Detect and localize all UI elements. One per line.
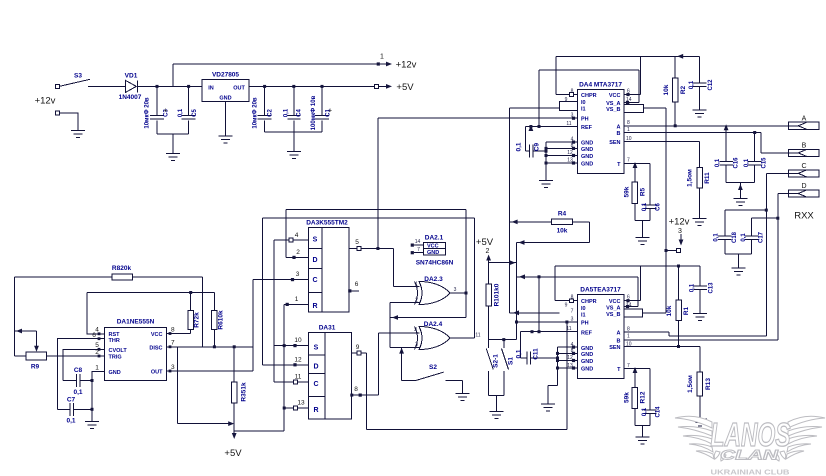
capacitor C6 [642,202,662,211]
junction dot out5 [376,247,379,250]
junction dot C9 at bus [545,150,548,153]
connector B [789,143,820,157]
wire +12v terminal [666,250,677,252]
svg-text:0,1: 0,1 [178,108,184,117]
DA5 VCC stub [624,299,641,302]
DA4 I0/I1 input box [560,101,578,110]
wire DA5 PH row [517,321,578,323]
capacitor C7 [70,403,74,416]
XOR gate DA2.4 [414,321,481,350]
label +12v output [396,60,417,71]
svg-text:59k: 59k [624,392,631,403]
555 pin squares left [98,332,101,357]
svg-text:0,1: 0,1 [73,389,82,396]
svg-text:GND: GND [581,367,593,373]
plus mark C3 [163,108,167,115]
wire VD1 to regulator [138,85,202,87]
wire C15 connections [754,133,756,183]
svg-text:CHPR: CHPR [581,93,597,99]
svg-text:A: A [802,116,807,123]
wire S2 to ground [461,381,463,394]
svg-text:C13: C13 [709,282,715,294]
wire C18 connections [725,210,766,254]
wire C7 row [57,408,92,410]
svg-text:R2: R2 [680,85,687,94]
junction dot riser at pin13 [283,407,286,410]
ground symbol 555 [85,418,99,429]
svg-text:R351k: R351k [241,382,248,402]
svg-text:59k: 59k [624,186,631,197]
ground symbol DA5 [541,400,555,411]
capacitor C1 [311,95,332,130]
pin number 11 [295,374,302,381]
wire THR loop [57,339,104,410]
svg-text:11: 11 [475,333,480,339]
svg-text:9: 9 [565,303,568,309]
svg-text:GND: GND [581,141,593,147]
svg-text:R101k0: R101k0 [494,283,501,306]
DA4 PH pin square [572,117,575,120]
svg-text:VD27805: VD27805 [212,72,239,79]
ground symbol C16-C15 [733,195,747,206]
capacitor C3 [145,97,170,129]
junction dot DA5 PH [565,321,568,324]
svg-text:SEN: SEN [609,345,620,351]
wire DA4 VCC loop [556,56,700,94]
wire pin4-pin11 riser [273,240,275,382]
wire out5 to DA4 PH riser [377,118,379,248]
arrow junction DA5 I0 feed [513,310,519,315]
arrow +5V rail [379,84,393,89]
wire DA5 VS_B to rail [643,312,666,314]
wire DA3.1 pin13 R [284,407,308,409]
wire DA5 A row [624,332,767,336]
svg-text:DA2.3: DA2.3 [424,276,443,283]
wire C6 drop [649,163,651,205]
svg-text:C12: C12 [708,79,714,91]
resistor R11 [687,168,712,189]
wire DA4 CHPR riser [555,56,557,94]
wire C13 connections [699,266,701,314]
arrow junction R2 top [677,54,683,59]
svg-text:0,1: 0,1 [516,349,523,358]
svg-text:PH: PH [581,321,589,327]
junction dot at C3 [156,85,159,88]
wire +12v top rail [173,63,378,65]
wire set-reset riser [283,304,285,431]
potentiometer R9 [26,345,47,371]
svg-text:R12: R12 [640,391,647,403]
pin square pin13 [294,406,298,410]
wire SEN row [624,141,700,143]
arrow junction R4 return [519,240,525,245]
wire T network bottom DA5 [635,409,650,438]
capacitor C2 wires [264,86,266,132]
wire DA2.3 output [450,292,467,294]
svg-text:8: 8 [171,327,175,334]
capacitor C11 [527,352,531,365]
capacitor C9 [529,145,533,158]
resistor R13 [687,372,712,396]
svg-text:S3: S3 [74,73,82,80]
svg-text:C11: C11 [533,348,540,360]
ground symbol below regulator [219,132,233,143]
svg-text:0,1: 0,1 [741,233,747,242]
wire switch bottom row [489,396,504,412]
pin square DA3 pin3 [291,278,294,281]
ground symbol T network DA5 [636,433,650,444]
DA5 VS_A stub [624,305,638,308]
svg-text:+12v: +12v [669,217,690,228]
svg-text:GND: GND [109,370,121,376]
svg-text:11: 11 [295,374,302,381]
pin number 3 [296,271,300,278]
svg-text:TRIG: TRIG [109,354,122,360]
svg-text:0,1: 0,1 [66,418,75,425]
capacitor C17 [741,231,765,243]
arrow junction DA4 REF [529,125,534,131]
svg-text:I1: I1 [581,107,586,113]
junction dots DA5 REF [531,330,541,333]
svg-text:1: 1 [295,296,299,303]
wire +5V distribution H1 [177,423,231,425]
wire +12v rail right [665,108,667,313]
wire S3 to VD1 [88,85,125,87]
label +12v input [35,96,56,107]
svg-text:10: 10 [294,337,302,344]
svg-text:DA31: DA31 [319,325,336,332]
junction dots DA4 GND bus [545,147,548,165]
svg-text:0,1: 0,1 [284,108,290,117]
wire DA4 GND bus [545,142,547,180]
DA2.1 VCC stub [411,239,424,247]
DA4 VS_B box [624,104,644,112]
wire C2-C1 bottom join [265,131,322,133]
wire DA2.4 output [450,337,475,339]
plus mark C1 [328,108,332,115]
input terminal +12v bottom [56,111,60,115]
wire connector C stub [766,172,788,174]
power arrow +5V middle [476,237,494,263]
DA4 GND stubs [546,141,578,165]
logic gate DA2.1 power unit [416,235,454,267]
svg-text:0,1: 0,1 [744,158,750,167]
label +5V output [396,82,414,93]
svg-text:2: 2 [486,248,490,255]
svg-text:2: 2 [414,327,417,333]
svg-text:0,1: 0,1 [689,80,695,89]
resistor R1 [666,300,690,321]
svg-text:DISC: DISC [149,345,162,351]
svg-text:GND: GND [581,346,593,352]
svg-text:GND: GND [581,162,593,168]
ground symbol at input [71,127,85,138]
svg-text:R: R [312,303,317,310]
junction dot S1 top [502,338,505,341]
wire R7 connections [190,293,192,334]
pin number 4 [295,232,299,239]
wire DA3.1 pin12 D [262,364,308,366]
arrow junction DA5 REF loop [519,274,525,279]
driver DA5 TEA3717 [578,287,624,379]
pin square DA3 pin2 [292,256,295,259]
svg-text:R610k: R610k [218,310,225,330]
svg-text:R: R [313,407,318,414]
wire rail A (I0 feed) [510,108,560,222]
DA5 CHPR stub [555,299,578,303]
arrow junction DA4 T [633,162,638,168]
ground symbol DA4 [539,177,553,188]
voltage regulator VD27805 [202,72,249,102]
svg-text:C5: C5 [192,109,198,117]
wire C17 connections [752,218,778,254]
arrow junction on R8 loop [16,329,22,334]
resistor R4 [551,211,572,235]
switch S1 [502,340,515,396]
svg-text:C7: C7 [67,397,76,404]
capacitor C11 labels [516,348,540,360]
svg-text:PH: PH [581,117,589,123]
svg-text:CLAN: CLAN [720,448,778,463]
svg-text:DA1NE555N: DA1NE555N [117,319,155,326]
svg-text:VS_B: VS_B [606,107,620,113]
wire rail B [516,243,518,340]
DA2.1 GND stub [411,247,424,254]
wire DA5 REF row [521,331,578,333]
resistor R8 [112,265,132,280]
svg-text:VCC: VCC [609,299,621,305]
svg-text:0,1: 0,1 [715,158,721,167]
555 pin numbers right [171,327,175,371]
wire +12v rail riser [172,64,174,86]
svg-text:1: 1 [95,365,99,372]
svg-text:C14: C14 [656,406,662,418]
terminal square +5V rail [374,84,378,88]
svg-text:I0: I0 [581,306,586,312]
svg-text:3: 3 [296,271,300,278]
svg-text:VCC: VCC [427,244,439,250]
ground symbol S2 [455,390,469,401]
svg-text:VS_B: VS_B [606,312,620,318]
svg-text:C16: C16 [734,157,740,169]
svg-text:+: + [163,108,167,115]
wire 555 GND pin [92,372,105,422]
wire D rail [777,194,779,340]
wire DA5 I0 feed [510,222,560,313]
wire VCC top row [87,292,214,294]
junction dot riser at pin10 [283,344,286,347]
svg-text:5: 5 [95,342,99,349]
svg-text:8: 8 [354,386,358,393]
wire DA5 VCC riser [639,266,641,301]
svg-text:B: B [617,338,621,344]
svg-text:DA2.4: DA2.4 [424,321,443,328]
connector C [789,163,820,177]
connector A [789,116,820,130]
svg-text:0,1: 0,1 [642,202,648,211]
capacitor C5 [178,108,198,119]
wire 555 VCC pin [167,333,191,335]
flip-flop DA3.1 [308,325,351,420]
diode VD1 [119,73,142,102]
junction dot R1 bottom [677,345,680,348]
capacitor C4 wires [293,86,295,151]
arrow junction R4 left [512,220,518,225]
power arrow +12v right [669,217,690,246]
capacitor C12 [689,79,714,91]
wire DA5 VCC loop row [555,265,700,267]
svg-text:S: S [314,345,319,352]
ground symbol C18-C17 [731,264,745,275]
svg-text:+5V: +5V [396,82,414,93]
wire DA2.3 out riser [465,210,467,318]
svg-text:14: 14 [415,239,421,245]
wire T network bottom [635,204,650,238]
svg-text:R820k: R820k [112,265,132,272]
svg-text:C6: C6 [656,203,662,211]
wire +5V distribution H2 [234,430,284,432]
svg-text:+: + [328,108,332,115]
svg-text:D: D [312,257,317,264]
wire input ground stub [60,113,79,131]
svg-text:D: D [313,364,318,371]
svg-text:1N4007: 1N4007 [119,94,142,101]
wire A row [624,125,789,127]
arrow +12v rail [380,62,392,67]
capacitor C14 [642,406,662,418]
svg-text:A: A [617,331,621,337]
switch S2-1 [486,340,499,396]
wire C8 row [63,380,92,382]
svg-text:C15: C15 [762,157,768,169]
wire DA4 PH row [378,117,578,119]
svg-text:4: 4 [295,232,299,239]
svg-text:VD1: VD1 [125,73,138,80]
wire +5V rail [249,85,374,87]
wire DA2.4 input1 [378,332,419,334]
driver DA4 MTA3717 [578,82,624,174]
pin square pin11 [294,380,298,384]
wire regulator GND pin [225,102,227,137]
capacitor C18 [714,231,739,243]
capacitor C4 [284,108,303,119]
wire DA3.1 pin11 C [274,381,308,383]
svg-text:GND: GND [219,95,231,101]
wire cascade row [390,317,466,319]
wire B row [624,133,789,153]
pin number 10 [294,337,302,344]
junction dot C8-gnd [91,379,94,382]
svg-text:7: 7 [627,158,630,164]
DA5 pin numbers left [565,295,574,369]
svg-text:5: 5 [355,239,359,246]
svg-text:+5V: +5V [224,448,242,459]
resistor 59k DA4 (R5) [624,182,647,204]
junction dot D rail [776,217,779,220]
wire DA3 pin1 R [284,303,308,305]
wire connector D stub [778,193,789,195]
svg-text:6: 6 [92,332,96,339]
svg-text:CHPR: CHPR [581,299,597,305]
label RXX [794,211,814,222]
capacitor C1 wires [321,86,323,132]
svg-text:100мкФ 10в: 100мкФ 10в [311,95,317,130]
555 pin squares right [169,332,172,372]
svg-text:9: 9 [356,344,360,351]
DA4 VS_A stub [624,101,639,104]
junction dot rail B at PH [515,321,518,324]
svg-text:1: 1 [627,334,630,340]
svg-text:UKRAINIAN CLUB: UKRAINIAN CLUB [711,468,791,476]
wire R8 right drop [202,277,204,347]
wire DA3 pin2 D [286,256,308,258]
capacitor C3 wires [156,86,158,134]
switch S2 [416,364,463,381]
svg-text:10k: 10k [557,228,568,235]
svg-text:REF: REF [581,330,593,336]
svg-text:SEN: SEN [609,140,620,146]
wire +5V inject row [489,262,517,264]
resistor 59k DA5 (R12) [624,388,647,409]
junction dot C11 at bus [556,357,559,360]
wire DA5 B row [624,339,778,341]
svg-text:R9: R9 [31,364,40,371]
wire bottom run to DA5 PH [367,322,567,429]
svg-text:R13: R13 [705,378,712,390]
svg-text:THR: THR [109,338,120,344]
junction dot at C5 [187,85,190,88]
wire DISC row [167,346,254,348]
junction dot C15 top [753,131,756,134]
wire DA5 REF loop riser [517,277,639,332]
pin number 2 [296,249,300,256]
wire C12 connections [699,56,701,110]
input terminal +12v top [56,84,60,88]
output 9 of DA3.1 [351,344,366,355]
connector D [789,183,820,197]
wire C9 connections [525,127,546,152]
pin number 13 [297,400,305,407]
arrow junction +5V inject [510,260,516,265]
DA4 CHPR stub [556,93,578,97]
svg-text:7: 7 [417,247,420,253]
wire DA2.3 input1 [394,286,420,288]
svg-text:1,5ом: 1,5ом [687,169,694,187]
svg-text:10мкФ 20в: 10мкФ 20в [145,97,151,129]
svg-text:OUT: OUT [233,86,245,92]
svg-text:6: 6 [355,281,359,288]
svg-text:CVOLT: CVOLT [109,348,128,354]
svg-text:8: 8 [627,120,630,126]
svg-text:S: S [313,237,318,244]
wire CVOLT loop [63,349,105,380]
svg-text:GND: GND [581,154,593,160]
wire DA2.3 input2 [390,302,420,304]
wire switch top row [489,339,517,341]
pin square DA3 pin4 [289,238,293,242]
pin number 1 on +12v rail [380,54,384,61]
junction dot C rail [765,209,768,212]
junction dot R1 top [677,265,680,268]
ground symbol C12 [693,106,707,117]
wire C rail [765,173,767,335]
output 6 of DA3 [348,281,359,293]
svg-text:0,1: 0,1 [516,142,523,151]
flip-flop DA3 K555TM2 [306,220,349,313]
svg-text:I0: I0 [581,100,586,106]
svg-text:C: C [312,277,317,284]
capacitor C8 [76,374,80,387]
